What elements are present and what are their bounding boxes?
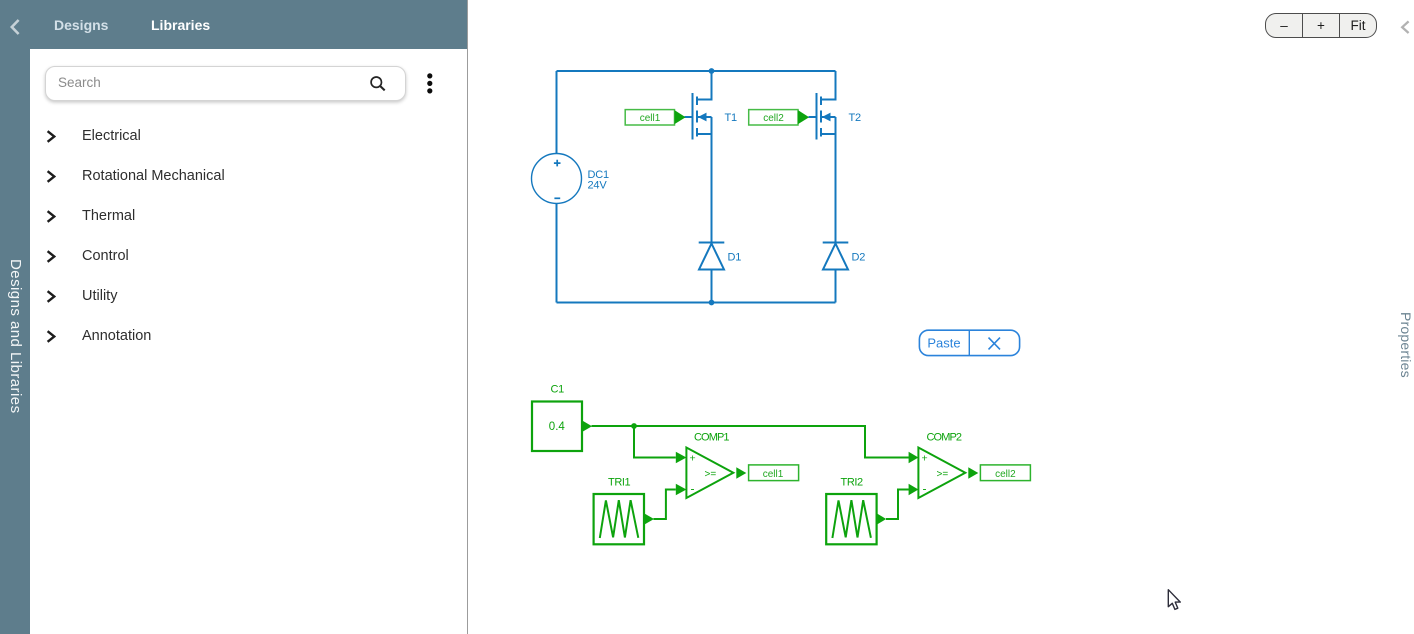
schematic canvas svg — [468, 0, 1414, 634]
D2 cathode bar — [823, 242, 849, 244]
T1 channel — [696, 97, 698, 137]
D1 anode triangle — [699, 244, 724, 270]
triangle source TRI2 — [826, 477, 886, 545]
svg-text:cell1: cell1 — [763, 469, 784, 480]
COMP2 plus input port arrow — [909, 452, 919, 463]
svg-text:24V: 24V — [588, 180, 608, 192]
tree row Thermal — [46, 210, 56, 223]
svg-text:>=: >= — [705, 469, 717, 480]
node junction top — [709, 68, 715, 74]
left panel header bar — [30, 0, 467, 49]
svg-text:-: - — [691, 482, 695, 496]
D1 cathode bar — [699, 242, 725, 244]
T1 body arrow line — [697, 116, 712, 118]
C1 output port arrow — [582, 420, 592, 432]
T2 gate bar — [816, 93, 818, 140]
diode D2 — [823, 243, 849, 303]
svg-text:+: + — [922, 453, 928, 465]
tree row Rotational Mechanical — [46, 170, 56, 183]
paste toolbar button — [919, 330, 1019, 355]
right collapse chevron — [1400, 20, 1411, 35]
svg-text:D2: D2 — [852, 252, 866, 264]
search placeholder — [58, 75, 101, 90]
wire top bus — [557, 70, 836, 72]
T1 gate bar — [692, 93, 694, 140]
strip collapse chevron — [9, 18, 21, 36]
wire junction to COMP2 plus — [634, 426, 909, 458]
transistor T2 — [809, 71, 836, 243]
library tree — [0, 0, 1414, 1]
svg-text:Paste: Paste — [927, 336, 960, 351]
wire TRI2 to COMP2 minus — [886, 490, 909, 520]
TRI1 waveform glyph — [600, 500, 639, 538]
tag cell1 arrow — [675, 110, 686, 124]
T1 drain lead — [697, 71, 712, 100]
input tag cell1 (gate of T1) — [625, 110, 685, 125]
right vertical label: Properties — [1398, 312, 1414, 382]
wire D1 anode lead — [711, 270, 713, 303]
wire C1 to junction — [592, 425, 635, 427]
COMP1 plus input port arrow — [676, 452, 687, 463]
tag cell2 arrow — [798, 110, 809, 124]
TRI1 body — [594, 494, 644, 544]
svg-text:TRI1: TRI1 — [608, 477, 631, 489]
node junction green — [631, 423, 637, 429]
svg-text:T1: T1 — [725, 112, 738, 124]
svg-text:+: + — [690, 453, 696, 465]
mouse cursor — [1168, 590, 1180, 610]
wire left branch upper — [556, 71, 558, 154]
wire junction down to COMP1 plus — [634, 426, 676, 458]
svg-text:cell2: cell2 — [763, 113, 784, 124]
panel right divider — [467, 0, 468, 634]
dc source DC1 — [532, 154, 582, 204]
tag cell1 box — [625, 110, 674, 125]
left collapse strip — [0, 0, 30, 634]
C1 body — [532, 402, 582, 452]
triangle source TRI1 — [594, 477, 654, 545]
tree row Annotation — [46, 330, 56, 343]
constant block C1 — [532, 384, 592, 452]
tag cell2 box — [749, 110, 798, 125]
T2 body arrow line — [821, 116, 836, 118]
comparator COMP1 — [676, 432, 747, 499]
input tag cell2 (gate of T2) — [749, 110, 809, 125]
comparator COMP2 — [909, 432, 979, 499]
tab Libraries — [151, 17, 210, 33]
search magnifier icon — [368, 74, 388, 94]
T2 gate lead — [809, 116, 817, 118]
svg-text:D1: D1 — [728, 252, 742, 264]
strip vertical label: Designs and Libraries — [7, 259, 24, 419]
wire D2 anode lead — [835, 270, 837, 303]
COMP1 minus input port arrow — [676, 484, 687, 495]
T2 source contact — [821, 133, 836, 135]
output tag cell2 — [980, 465, 1030, 481]
transistor T1 — [685, 71, 712, 243]
COMP2 output port arrow — [968, 467, 978, 479]
output tag cell1 — [749, 465, 799, 481]
left panel body — [30, 49, 467, 634]
svg-text:COMP2: COMP2 — [927, 432, 962, 444]
kebab menu — [423, 70, 437, 98]
svg-text:-: - — [923, 482, 927, 496]
TRI2 output port arrow — [877, 513, 887, 525]
tree row Electrical — [46, 130, 56, 143]
svg-text:>=: >= — [937, 469, 949, 480]
svg-text:cell1: cell1 — [640, 113, 661, 124]
node junction bottom — [709, 300, 715, 306]
diode D1 — [699, 243, 725, 303]
COMP1 triangle body — [686, 448, 733, 499]
search box — [45, 66, 406, 101]
wire left branch lower — [556, 204, 558, 303]
wire T2 source to D2 — [835, 117, 837, 243]
T1 gate lead — [685, 116, 693, 118]
zoom control buttons — [1265, 13, 1377, 38]
T1 source contact — [697, 133, 712, 135]
svg-text:C1: C1 — [551, 384, 565, 396]
TRI2 body — [826, 494, 876, 544]
svg-text:TRI2: TRI2 — [841, 477, 864, 489]
D2 anode triangle — [823, 244, 848, 270]
T2 channel — [820, 97, 822, 137]
wire TRI1 to COMP1 minus — [654, 490, 676, 520]
COMP1 output port arrow — [736, 467, 746, 479]
tree row Control — [46, 250, 56, 263]
COMP2 triangle body — [918, 448, 965, 499]
TRI2 waveform glyph — [832, 500, 871, 538]
TRI1 output port arrow — [644, 513, 654, 525]
svg-text:0.4: 0.4 — [549, 421, 566, 433]
wire bottom bus — [557, 302, 836, 304]
tree row Utility — [46, 290, 56, 303]
T2 drain lead — [821, 71, 836, 100]
COMP2 minus input port arrow — [909, 484, 919, 495]
tab Designs — [54, 17, 108, 33]
svg-text:COMP1: COMP1 — [694, 432, 729, 444]
wire T1 source to D1 — [711, 117, 713, 243]
svg-text:cell2: cell2 — [995, 469, 1016, 480]
svg-text:T2: T2 — [849, 112, 862, 124]
